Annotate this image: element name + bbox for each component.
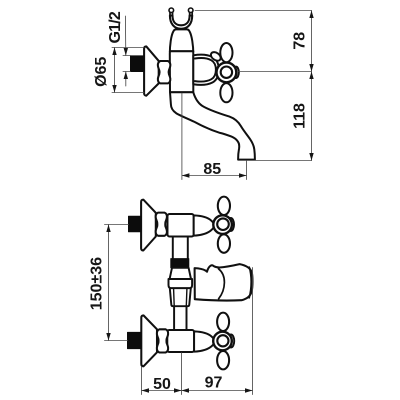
- arrow 150 top (up): [106, 225, 110, 233]
- skirt inner line left: [173, 289, 176, 306]
- dim line 78/118: [311, 11, 313, 161]
- ext line top (fork): [195, 10, 312, 12]
- bottom row handle hub inner: [217, 335, 228, 346]
- tick 150 bottom: [105, 340, 128, 342]
- skirt inner line right: [185, 289, 188, 306]
- bottom row cap dome: [194, 331, 214, 351]
- handle hub outer: [217, 63, 237, 83]
- bottom row handle top arm: [217, 313, 229, 331]
- arrow 118 top (up): [309, 72, 313, 80]
- diverter collar: [169, 279, 193, 288]
- arrow 85 left: [182, 173, 190, 177]
- top row handle bottom arm: [218, 234, 230, 252]
- dim line 150: [108, 225, 110, 341]
- dim 85 ext left: [181, 93, 183, 180]
- G1/2 tick bottom: [123, 71, 131, 73]
- ext line middle (handle axis): [239, 71, 312, 73]
- fork left ball: [169, 8, 174, 13]
- body joint line lower: [170, 91, 192, 93]
- arrows top drawing: [112, 11, 313, 178]
- top row escutcheon: [141, 200, 156, 251]
- arrows bottom drawing: [106, 225, 252, 393]
- top row cap dome: [194, 215, 214, 235]
- indicator button: [209, 50, 222, 62]
- diverter knob flare: [170, 268, 191, 279]
- escutcheon (wall flange, side view): [144, 46, 159, 95]
- ext line bottom (spout outlet): [256, 160, 312, 162]
- handle rear knob bump: [233, 67, 239, 78]
- top row handle hub: [213, 215, 232, 234]
- arrow 78 top (up): [309, 11, 313, 19]
- dia65 tick top: [112, 47, 144, 49]
- arrow dia65 bottom (down): [112, 85, 116, 93]
- svg-text:150±36: 150±36: [89, 257, 106, 310]
- arrow 150 bottom (down): [106, 333, 110, 341]
- wall nipple G1/2 (black): [131, 56, 145, 72]
- G1/2 tick top: [123, 55, 131, 57]
- bottom row handle rear bump: [228, 335, 234, 348]
- fork right ball: [188, 8, 193, 13]
- body joint line upper: [170, 50, 193, 52]
- svg-text:97: 97: [205, 375, 223, 392]
- lower connecting pipe: [174, 304, 186, 331]
- bottom row body: [167, 330, 194, 352]
- arrow 78 bottom (down): [309, 64, 313, 72]
- bottom row s-union nut: [157, 329, 168, 352]
- fork left prong: [169, 11, 171, 17]
- ext 50/97 middle: [181, 353, 183, 395]
- arrow G1/2 upper (down): [124, 48, 128, 56]
- shower-hook fork crescent: [170, 16, 192, 29]
- upper connecting pipe: [173, 236, 188, 260]
- s-union nut (hourglass): [158, 61, 170, 83]
- handle bottom arm: [220, 83, 232, 102]
- spout front view: [195, 264, 253, 300]
- top row body: [168, 214, 194, 237]
- diverter skirt: [170, 288, 191, 306]
- top row handle top arm: [218, 197, 230, 215]
- top row nipple (black): [129, 216, 141, 231]
- bottom row nipple (black): [128, 332, 141, 348]
- arrow 97 left: [182, 388, 190, 392]
- arrow dia65 top (up): [112, 48, 116, 56]
- dim 85 ext right: [246, 161, 248, 180]
- dim line 85: [182, 175, 247, 177]
- arrow 118 bottom (down): [309, 153, 313, 161]
- body and spout outline: [170, 29, 255, 159]
- svg-text:85: 85: [203, 161, 221, 178]
- top row s-union nut: [156, 213, 167, 236]
- bottom row escutcheon: [141, 315, 157, 366]
- bottom row handle hub: [213, 332, 232, 351]
- ext 50 left: [141, 367, 143, 395]
- arrow 50 right: [174, 388, 182, 392]
- spout rim line: [249, 267, 251, 298]
- G1/2 leader lower: [125, 72, 127, 87]
- arrow 97 right: [245, 388, 253, 392]
- top row handle rear bump: [228, 218, 234, 231]
- G1/2 leader upper: [124, 16, 126, 56]
- dia65 dim line: [114, 48, 116, 93]
- arrow 85 right: [239, 173, 247, 177]
- handle top arm: [220, 43, 232, 62]
- svg-text:78: 78: [291, 32, 308, 50]
- svg-text:G1/2: G1/2: [107, 11, 124, 43]
- arrow 50 left: [142, 388, 150, 392]
- bonnet inner curve: [195, 58, 216, 81]
- ext 97 right: [252, 268, 254, 395]
- dia65 tick bottom: [112, 92, 144, 94]
- diverter black band: [171, 259, 189, 268]
- svg-text:Ø65: Ø65: [93, 57, 110, 87]
- tick 150 top: [105, 224, 129, 226]
- top row handle hub inner: [217, 218, 229, 230]
- spout joint curve: [218, 269, 224, 299]
- svg-text:50: 50: [153, 376, 171, 393]
- valve bonnet (C shape): [193, 55, 219, 85]
- bottom row handle bottom arm: [217, 351, 229, 369]
- handle hub inner: [221, 67, 232, 78]
- dim line 50/97: [142, 390, 253, 392]
- fork right prong: [191, 11, 193, 17]
- svg-text:118: 118: [292, 103, 309, 129]
- arrow G1/2 lower (up): [124, 72, 128, 80]
